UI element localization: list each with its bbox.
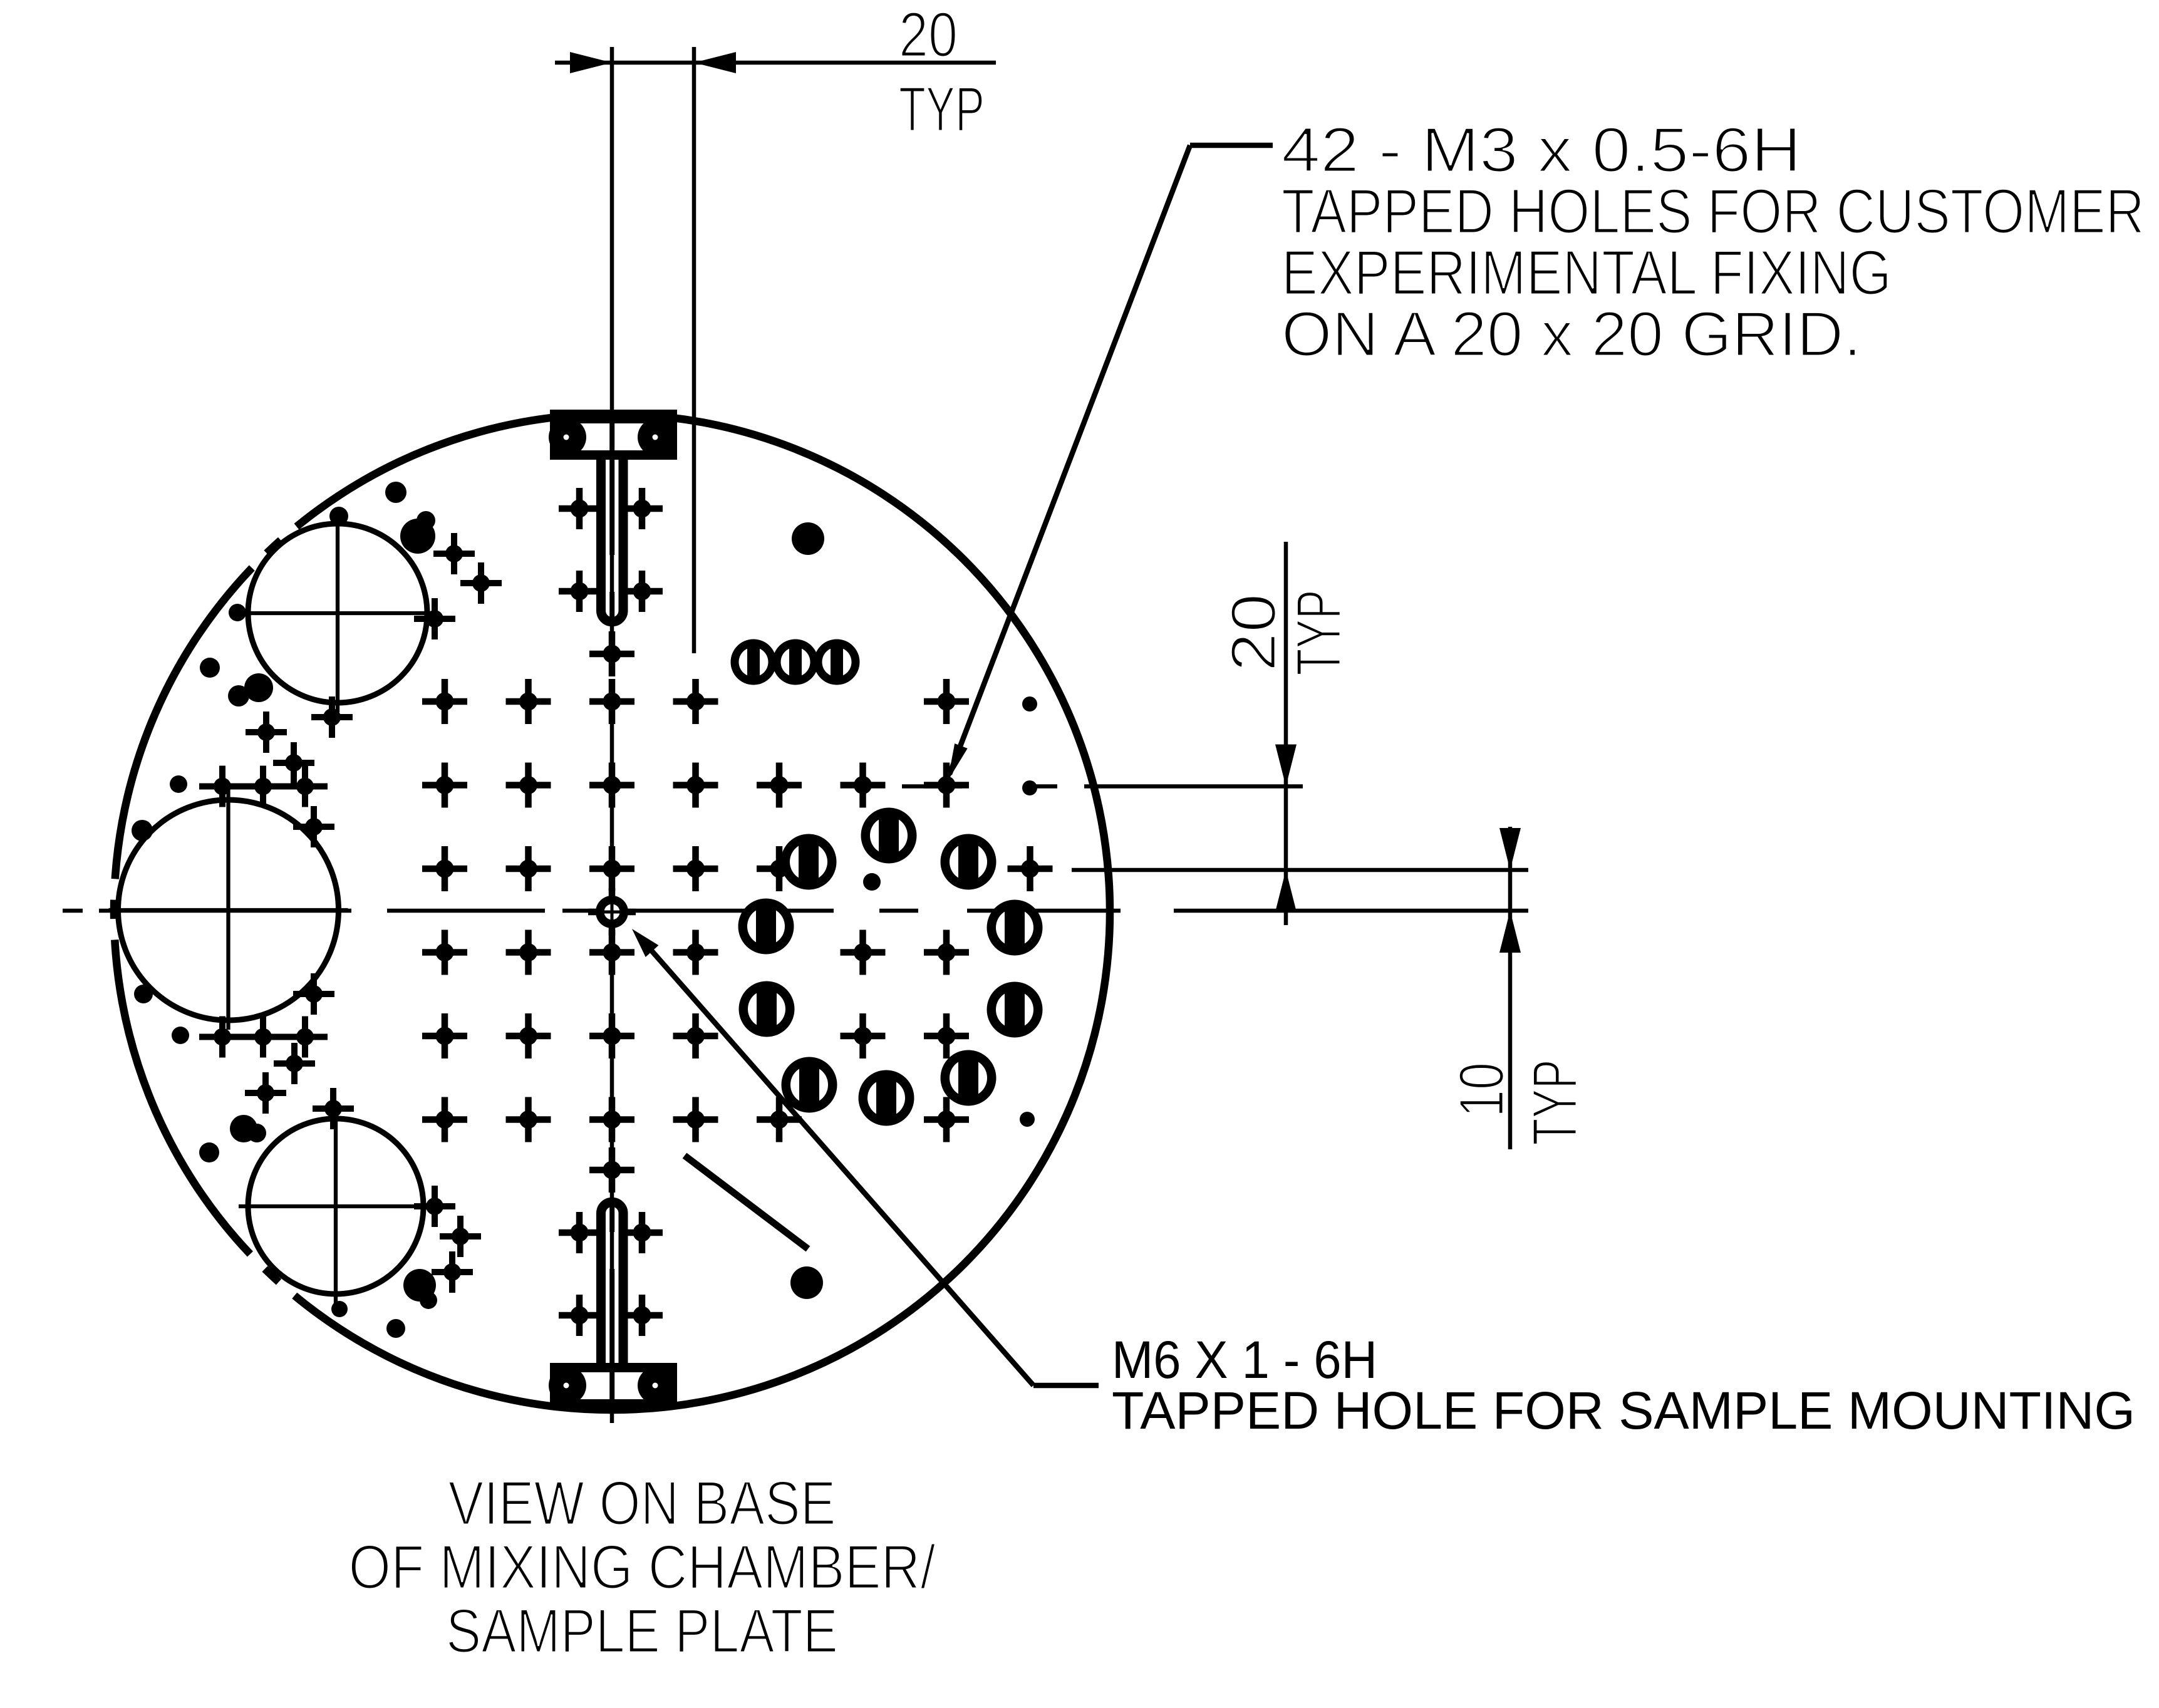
cluster hole (424,1745) — [245, 1072, 286, 1114]
wiring hole dot (410,1809) — [247, 1124, 266, 1142]
slot-side tapped hole at (1025,944) — [621, 571, 663, 612]
centre mark of upper-left clearance hole — [239, 514, 437, 712]
cluster hole (735,1974) — [440, 1216, 481, 1257]
boss hole on ring (1546,1721) — [941, 1050, 997, 1106]
large clearance hole (left) — [118, 800, 339, 1020]
wiring hole dot (632,2121) — [386, 1319, 405, 1338]
M3 tapped hole (col +1, row +332) — [673, 1097, 718, 1142]
row extension line (y-69) — [1072, 868, 1528, 872]
wiring hole dot (285,1252) — [170, 775, 187, 793]
wiring hole dot (335,1066) — [200, 658, 220, 678]
svg-text:VIEW ON BASE: VIEW ON BASE — [448, 1468, 836, 1538]
M3 tapped hole (col -2, row +332) — [422, 1097, 467, 1142]
extension line right of centreline (top dim) — [692, 47, 696, 653]
M3 tapped hole (col +0, row +198) — [589, 1013, 634, 1058]
small boss hole (1270,1057) — [773, 639, 819, 685]
leader line to M6 hole — [649, 948, 1099, 1385]
M3 tapped hole (col +2, row -69) — [757, 846, 802, 891]
M3 tapped hole (col +3, row +64) — [841, 930, 886, 975]
wiring hole dot (541,824) — [329, 507, 348, 525]
cluster hole (694,1926) — [414, 1186, 455, 1227]
svg-text:TAPPED HOLE FOR SAMPLE MOUNTIN: TAPPED HOLE FOR SAMPLE MOUNTING — [1112, 1381, 2135, 1440]
svg-text:TAPPED HOLES FOR CUSTOMER: TAPPED HOLES FOR CUSTOMER — [1281, 177, 2145, 247]
wiring hole dot (229,1587) — [134, 985, 153, 1003]
leader arrowhead (M3 note) — [948, 743, 968, 781]
large clearance hole (upper-left) — [248, 524, 427, 703]
cluster hole (501,1587) — [293, 973, 334, 1015]
svg-text:TYP: TYP — [899, 75, 985, 145]
cluster hole (355,1256) — [202, 766, 243, 807]
centre mark of lower-left clearance hole — [239, 1109, 433, 1303]
wiring hole dot (381,1111) — [228, 685, 249, 706]
M3 tapped hole (col -2, row -202) — [422, 763, 467, 808]
wiring hole dot (379,978) — [229, 604, 246, 621]
wiring hole dot (288,1653) — [172, 1027, 189, 1044]
wiring hole dot (542,2090) — [331, 1301, 348, 1317]
outline break near upper-left circle — [252, 553, 267, 568]
cluster hole (694,988) — [414, 598, 455, 639]
small boss hole (1203,1057) — [731, 639, 777, 685]
cluster hole (501,1320) — [293, 806, 334, 847]
M3 tapped hole (col -2, row -336) — [422, 679, 467, 724]
cluster hole (722,2031) — [432, 1251, 473, 1293]
bottom slot (stadium) — [601, 1202, 624, 1363]
dim 10 arrow up — [1499, 911, 1521, 953]
pilot hole dot (col +3 row -68 offset) — [863, 873, 881, 891]
slot-side tapped hole at (1025,812) — [621, 488, 663, 529]
small boss hole (1336,1057) — [814, 639, 860, 685]
svg-text:42 - M3 x 0.5-6H: 42 - M3 x 0.5-6H — [1281, 115, 1801, 185]
horizontal centreline (chain line) — [63, 909, 1121, 913]
pilot hole dot (col +5 row +335) — [1020, 1112, 1035, 1127]
M3 tapped hole (col +2, row -202) — [757, 763, 802, 808]
leader line to M3 grid hole — [950, 145, 1273, 774]
wiring hole dot (684,2076) — [420, 1291, 437, 1309]
vertical centreline (chain line) — [610, 47, 614, 1423]
boss hole on ring (1546,1376) — [941, 834, 997, 890]
M3 tapped hole (col -2, row +64) — [422, 930, 467, 975]
plate outline (mixing chamber base circle) — [114, 414, 1110, 1410]
M3 tapped hole (col +4, row -336) — [924, 679, 969, 724]
cluster hole (420,1256) — [242, 766, 284, 807]
M3 tapped hole (col +4, row +332) — [924, 1097, 969, 1142]
M3 tapped hole (col +1, row -336) — [673, 679, 718, 724]
wiring hole dot (1290,860) — [792, 522, 824, 555]
wiring hole dot (413,1098) — [244, 673, 273, 702]
top slot inner line — [609, 410, 614, 617]
top dimension line — [555, 61, 996, 65]
M3 tapped hole (col +3, row -202) — [841, 763, 886, 808]
M3 tapped hole (col -1, row -336) — [506, 679, 551, 724]
M3 tapped hole (col +1, row -69) — [673, 846, 718, 891]
wiring hole dot (227,1326) — [132, 820, 153, 841]
svg-text:20: 20 — [1219, 594, 1289, 672]
wiring hole dot (334,1840) — [199, 1142, 219, 1162]
outline break near left circle — [114, 919, 115, 939]
M3 tapped hole (col +2, row +332) — [757, 1097, 802, 1142]
M3 tapped hole (col +4, row +198) — [924, 1013, 969, 1058]
M3 tapped hole (col +0, row +332) — [589, 1097, 634, 1142]
connecting line through upper trio — [199, 784, 328, 790]
svg-text:TYP: TYP — [1520, 1060, 1590, 1146]
pilot hole dot (col +5 row -202) — [1022, 780, 1037, 795]
M3 tapped hole (col +5, row -69) — [1008, 846, 1053, 891]
svg-text:TYP: TYP — [1284, 590, 1354, 676]
boss hole on ring (1223,1479) — [738, 899, 794, 955]
M3 tapped hole above bottom slot — [589, 1147, 634, 1193]
cluster hole (768,931) — [460, 562, 502, 604]
svg-text:M6 X 1 - 6H: M6 X 1 - 6H — [1112, 1330, 1377, 1389]
M3 tapped hole (col -2, row +198) — [422, 1013, 467, 1058]
right dim arrow up — [1275, 870, 1297, 912]
centre row extension line — [1174, 909, 1528, 913]
M3 tapped hole (col -1, row +332) — [506, 1097, 551, 1142]
cluster hole (420,1656) — [242, 1017, 284, 1058]
wiring hole dot (632,786) — [385, 482, 406, 503]
wiring hole dot (389,1802) — [230, 1115, 257, 1142]
M3 tapped hole (col +1, row -202) — [673, 763, 718, 808]
right dim line 20 — [1284, 542, 1288, 925]
wiring hole dot (1288,2048) — [790, 1266, 823, 1299]
top T-slot bar — [549, 410, 677, 460]
slot-side tapped hole at (925,2100) — [559, 1295, 600, 1336]
dim 10 arrow down — [1499, 828, 1521, 870]
M3 tapped hole (col -1, row +64) — [506, 930, 551, 975]
row extension line (y-202) — [902, 784, 1303, 789]
wiring hole dot (667,856) — [400, 519, 435, 554]
cluster hole (487,1656) — [284, 1017, 326, 1058]
connecting line through lower trio — [199, 1034, 328, 1040]
wiring hole dot (680,831) — [417, 511, 435, 530]
cluster hole (487,1256) — [284, 766, 326, 807]
large clearance hole (lower-left) — [248, 1119, 423, 1294]
top dimension arrow right — [694, 52, 736, 73]
M3 tapped hole (col -1, row -202) — [506, 763, 551, 808]
cluster hole (469,1218) — [273, 742, 314, 784]
pilot hole dot (col +5 row -336) — [1022, 696, 1037, 712]
M3 tapped hole (col +0, row -69) — [589, 846, 634, 891]
dim line 10 — [1508, 827, 1513, 1149]
cluster hole (425,1169) — [246, 712, 287, 753]
svg-text:20: 20 — [899, 0, 958, 70]
M3 tapped hole (col +4, row -202) — [924, 763, 969, 808]
cluster hole (725,884) — [433, 533, 475, 574]
svg-text:ON A 20 x 20 GRID.: ON A 20 x 20 GRID. — [1281, 299, 1861, 370]
boss hole on ring (1224,1611) — [739, 981, 795, 1037]
M3 tapped hole (col -1, row -69) — [506, 846, 551, 891]
slot-side tapped hole at (925,944) — [559, 571, 600, 612]
M3 tapped hole (col -1, row +198) — [506, 1013, 551, 1058]
reference line segment — [685, 1156, 808, 1249]
slot-side tapped hole at (925,812) — [559, 488, 600, 529]
M3 tapped hole (col +3, row +198) — [841, 1013, 886, 1058]
M3 tapped hole (col +0, row +64) — [589, 930, 634, 975]
slot-side tapped hole at (1025,2100) — [621, 1295, 663, 1336]
cluster hole (532,1770) — [313, 1088, 354, 1129]
M3 tapped hole (col +4, row +64) — [924, 930, 969, 975]
M3 tapped hole (col -2, row -69) — [422, 846, 467, 891]
right dim arrow down — [1275, 745, 1297, 787]
boss hole on ring (1292,1732) — [782, 1057, 837, 1113]
M3 tapped hole (col +1, row +198) — [673, 1013, 718, 1058]
M3 tapped hole (col +1, row +64) — [673, 930, 718, 975]
boss hole on ring (1620,1481) — [987, 900, 1043, 956]
slot-side tapped hole at (925,1968) — [559, 1212, 600, 1253]
svg-text:10: 10 — [1447, 1062, 1517, 1117]
M3 tapped hole (col +0, row -202) — [589, 763, 634, 808]
M6 x 1-6H tapped hole (centre) — [588, 888, 636, 936]
wiring hole dot (670,2052) — [403, 1269, 436, 1302]
outline break near lower-left circle — [279, 1282, 294, 1296]
cluster hole (355,1656) — [202, 1017, 243, 1058]
slot-side tapped hole at (1025,1968) — [621, 1212, 663, 1253]
top slot (stadium) — [601, 460, 624, 622]
centre mark of left clearance hole — [109, 790, 348, 1030]
bottom slot inner line — [609, 1207, 614, 1407]
M3 tapped hole (col +0, row -336) — [589, 679, 634, 724]
boss hole on ring (1419,1334) — [861, 808, 917, 864]
cluster hole (470,1698) — [274, 1043, 315, 1084]
boss hole on ring (1291,1376) — [781, 834, 837, 890]
svg-text:EXPERIMENTAL FIXING: EXPERIMENTAL FIXING — [1281, 238, 1892, 308]
boss hole on ring (1415,1753) — [859, 1070, 914, 1126]
bottom T-slot bar — [549, 1363, 677, 1407]
cluster hole (530,1145) — [311, 696, 353, 738]
svg-text:OF MIXING CHAMBER/: OF MIXING CHAMBER/ — [349, 1532, 936, 1602]
svg-text:SAMPLE PLATE: SAMPLE PLATE — [446, 1596, 838, 1665]
boss hole on ring (1620,1612) — [987, 982, 1043, 1038]
leader arrowhead (M6 note) — [632, 929, 659, 957]
M3 tapped hole below top slot — [589, 631, 634, 676]
top dimension arrow left — [570, 52, 612, 73]
